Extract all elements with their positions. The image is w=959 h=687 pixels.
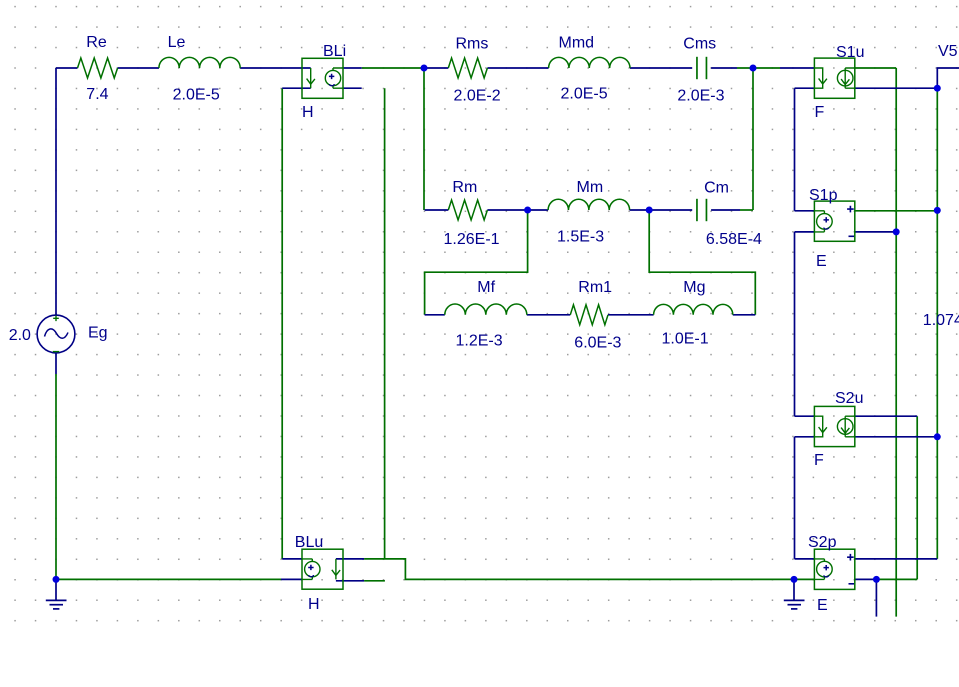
svg-text:S2u: S2u [835,390,863,407]
svg-text:E: E [816,253,827,270]
svg-text:BLi: BLi [323,43,346,60]
svg-text:Cm: Cm [704,180,729,197]
svg-text:Le: Le [168,34,186,51]
svg-text:Mm: Mm [577,179,604,196]
svg-text:1.5E-3: 1.5E-3 [557,229,604,246]
svg-text:BLu: BLu [295,534,323,551]
svg-text:7.4: 7.4 [86,86,108,103]
svg-text:1.074: 1.074 [923,312,959,329]
svg-text:V5: V5 [938,43,958,60]
svg-text:F: F [815,104,825,121]
svg-text:2.0E-2: 2.0E-2 [454,88,501,105]
svg-text:F: F [814,452,824,469]
svg-text:S1p: S1p [809,187,838,204]
svg-text:S2p: S2p [808,534,837,551]
svg-text:1.0E-1: 1.0E-1 [662,331,709,348]
svg-text:Rm1: Rm1 [578,279,612,296]
svg-text:S1u: S1u [836,44,864,61]
svg-text:Cms: Cms [683,36,716,53]
svg-text:1.26E-1: 1.26E-1 [444,231,500,248]
svg-text:H: H [308,596,320,613]
svg-text:Mmd: Mmd [559,34,595,51]
svg-text:6.0E-3: 6.0E-3 [574,335,621,352]
svg-text:Rms: Rms [456,36,489,53]
svg-text:E: E [817,597,828,614]
svg-text:2.0E-3: 2.0E-3 [677,88,724,105]
svg-text:Eg: Eg [88,325,108,342]
svg-text:Mg: Mg [683,279,705,296]
svg-text:Rm: Rm [452,179,477,196]
svg-text:H: H [302,104,314,121]
svg-text:Mf: Mf [477,279,495,296]
svg-text:2.0E-5: 2.0E-5 [173,87,220,104]
svg-text:1.2E-3: 1.2E-3 [456,333,503,350]
svg-text:2.0E-5: 2.0E-5 [561,86,608,103]
svg-text:6.58E-4: 6.58E-4 [706,231,762,248]
svg-text:Re: Re [86,34,107,51]
svg-text:2.0: 2.0 [9,327,31,344]
